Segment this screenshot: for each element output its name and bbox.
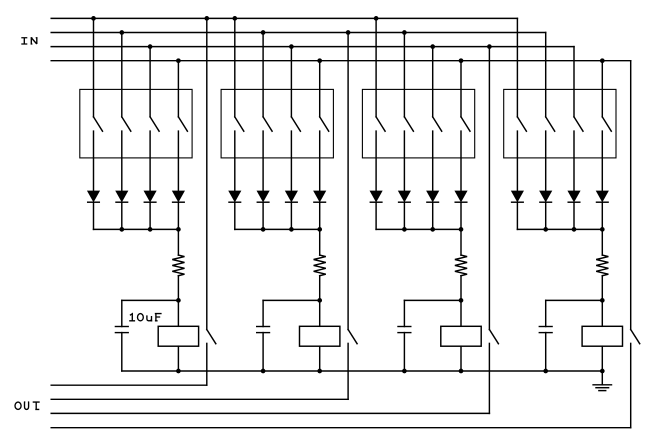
relay coil K3 <box>441 326 481 346</box>
junction dot relay K2 at ground rail <box>317 369 322 374</box>
relay coil K2 <box>300 326 340 346</box>
wire from IN1 down to switch SW3-1 <box>375 18 377 117</box>
wire channel-1 diode common rail <box>94 228 179 230</box>
wire from diode D33 cathode to channel-3 rail <box>432 202 434 229</box>
wire from IN4 down to switch SW3-4 <box>460 61 462 117</box>
wire from switch SW4-1 to diode D41 <box>516 131 518 191</box>
capacitor C2 <box>257 327 270 333</box>
diode D43 <box>568 191 580 202</box>
value label 10uF for capacitor C1 <box>129 314 161 321</box>
capacitor C4 <box>539 327 552 333</box>
switch SW4-2 <box>546 117 555 131</box>
switch SW2-3 <box>291 117 300 131</box>
switch SW2-2 <box>263 117 272 131</box>
wire diode rail to resistor R2 <box>319 229 321 255</box>
wire from IN2 down to switch SW1-2 <box>121 33 123 117</box>
resistor R4 <box>596 255 608 276</box>
wire from switch SW1-4 to diode D14 <box>177 131 179 191</box>
wire relay coil K4 to ground rail <box>601 346 603 371</box>
wire from switch SW4-4 to diode D44 <box>601 131 603 191</box>
diode D32 <box>399 191 411 202</box>
switch SW4-1 <box>517 117 526 131</box>
wire IN1 bus line <box>51 17 517 19</box>
wire relay contact K2 to OUT2 <box>347 343 349 399</box>
wire from diode D14 cathode to channel-1 rail <box>177 202 179 229</box>
diode D44 <box>597 191 609 202</box>
wire from switch SW3-1 to diode D31 <box>375 131 377 191</box>
wire relay coil K1 to ground rail <box>177 346 179 371</box>
net label IN <box>21 38 37 44</box>
wire from IN4 down to switch SW4-4 <box>601 61 603 117</box>
relay contact switch K2 <box>348 330 357 344</box>
wire capacitor C3 to ground rail <box>403 333 405 371</box>
wire from IN2 down to switch SW2-2 <box>262 33 264 117</box>
capacitor C1 <box>115 327 128 333</box>
wire from IN3 down to switch SW2-3 <box>290 47 292 117</box>
diode D21 <box>229 191 241 202</box>
diode D12 <box>116 191 128 202</box>
net label OUT <box>15 402 40 409</box>
junction dots on net IN4 <box>176 58 605 63</box>
DIP switch block SW1 <box>80 89 192 157</box>
wire channel-3 diode common rail <box>376 228 461 230</box>
relay contact switch K3 <box>489 330 498 344</box>
switch SW3-3 <box>433 117 442 131</box>
wire resistor R2 to node 2 <box>319 276 321 301</box>
junction dots on channel-3 diode rail <box>402 227 463 232</box>
wire from IN4 down to switch SW2-4 <box>319 61 321 117</box>
wire from IN3 down to switch SW3-3 <box>432 47 434 117</box>
diode D41 <box>512 191 524 202</box>
wire node 1 to capacitor C1 <box>122 300 179 326</box>
wire node 3 to relay coil K3 <box>460 300 462 326</box>
wire from diode D23 cathode to channel-2 rail <box>290 202 292 229</box>
wire capacitor C4 to ground rail <box>545 333 547 371</box>
wire from diode D21 cathode to channel-2 rail <box>234 202 236 229</box>
wire from diode D11 cathode to channel-1 rail <box>93 202 95 229</box>
wire OUT4 bus line <box>51 427 631 429</box>
wire node 1 to relay coil K1 <box>177 300 179 326</box>
wire from switch SW1-3 to diode D13 <box>149 131 151 191</box>
wire node 2 to capacitor C2 <box>263 300 320 326</box>
resistor R2 <box>314 255 326 276</box>
wire from switch SW4-2 to diode D42 <box>545 131 547 191</box>
wire IN2 to relay contact K2 <box>347 33 349 330</box>
wire from switch SW2-2 to diode D22 <box>262 131 264 191</box>
wire from IN1 down to switch SW1-1 <box>93 18 95 117</box>
diode D22 <box>257 191 269 202</box>
wire from diode D43 cathode to channel-4 rail <box>573 202 575 229</box>
wire relay contact K3 to OUT3 <box>488 343 490 413</box>
junction dot relay K4 at ground rail <box>600 369 605 374</box>
diode D11 <box>88 191 100 202</box>
diode D42 <box>540 191 552 202</box>
diode D13 <box>144 191 156 202</box>
diode D34 <box>455 191 467 202</box>
wire from IN3 down to switch SW1-3 <box>149 47 151 117</box>
junction dots on ground rail (capacitors C2-C4) <box>261 369 548 374</box>
switch SW2-4 <box>320 117 329 131</box>
wire from diode D24 cathode to channel-2 rail <box>319 202 321 229</box>
wire from diode D12 cathode to channel-1 rail <box>121 202 123 229</box>
junction dots on net IN1 <box>91 16 378 21</box>
wire from diode D31 cathode to channel-3 rail <box>375 202 377 229</box>
relay coil K4 <box>582 326 622 346</box>
wire node 2 to relay coil K2 <box>319 300 321 326</box>
wire from diode D22 cathode to channel-2 rail <box>262 202 264 229</box>
wire ground rail <box>122 370 603 372</box>
wire resistor R1 to node 1 <box>177 276 179 301</box>
wire from diode D13 cathode to channel-1 rail <box>149 202 151 229</box>
switch SW3-4 <box>461 117 470 131</box>
wire IN3 to relay contact K3 <box>488 47 490 330</box>
junction dot relay K1 at ground rail <box>176 369 181 374</box>
wire OUT2 bus line <box>51 398 348 400</box>
ground <box>593 371 611 391</box>
diode D23 <box>286 191 298 202</box>
diode D14 <box>173 191 185 202</box>
switch SW4-4 <box>602 117 611 131</box>
wire resistor R4 to node 4 <box>601 276 603 301</box>
switch SW3-1 <box>376 117 385 131</box>
wire from diode D32 cathode to channel-3 rail <box>403 202 405 229</box>
switch SW3-2 <box>404 117 413 131</box>
DIP switch block SW3 <box>362 89 474 157</box>
node 4 junction <box>600 298 605 303</box>
wire IN2 bus line <box>51 32 546 34</box>
wire from diode D42 cathode to channel-4 rail <box>545 202 547 229</box>
switch SW1-3 <box>150 117 159 131</box>
junction dots on net IN2 <box>119 30 406 35</box>
wire from IN1 down to switch SW2-1 <box>234 18 236 117</box>
wire from switch SW2-3 to diode D23 <box>290 131 292 191</box>
diode D31 <box>370 191 382 202</box>
junction dots on net IN3 <box>148 44 492 49</box>
diode D24 <box>314 191 326 202</box>
resistor R3 <box>455 255 467 276</box>
capacitor C3 <box>398 327 411 333</box>
wire diode rail to resistor R1 <box>177 229 179 255</box>
switch SW1-2 <box>122 117 131 131</box>
resistor R1 <box>172 255 184 276</box>
switch SW2-1 <box>235 117 244 131</box>
wire node 4 to relay coil K4 <box>601 300 603 326</box>
wire from IN3 down to switch SW4-3 <box>573 47 575 117</box>
wire from switch SW3-2 to diode D32 <box>403 131 405 191</box>
wire capacitor C1 to ground rail <box>121 333 123 371</box>
wire diode rail to resistor R4 <box>601 229 603 255</box>
wire relay coil K3 to ground rail <box>460 346 462 371</box>
wire from IN2 down to switch SW3-2 <box>403 33 405 117</box>
wire capacitor C2 to ground rail <box>262 333 264 371</box>
DIP switch block SW2 <box>221 89 333 157</box>
wire resistor R3 to node 3 <box>460 276 462 301</box>
junction dots on channel-1 diode rail <box>119 227 180 232</box>
wire from diode D34 cathode to channel-3 rail <box>460 202 462 229</box>
switch SW1-4 <box>178 117 187 131</box>
wire IN4 to relay contact K4 <box>630 61 632 330</box>
wire OUT3 bus line <box>51 412 489 414</box>
node 1 junction <box>176 298 181 303</box>
wire node 3 to capacitor C3 <box>404 300 461 326</box>
wire IN3 bus line <box>51 46 574 48</box>
junction dot relay K3 at ground rail <box>459 369 464 374</box>
wire from switch SW2-1 to diode D21 <box>234 131 236 191</box>
relay coil K1 <box>158 326 198 346</box>
wire from switch SW1-1 to diode D11 <box>93 131 95 191</box>
wire channel-2 diode common rail <box>235 228 320 230</box>
diode D33 <box>427 191 439 202</box>
junction dots on channel-4 diode rail <box>543 227 604 232</box>
relay contact switch K4 <box>631 330 640 344</box>
wire from switch SW3-3 to diode D33 <box>432 131 434 191</box>
wire channel-4 diode common rail <box>517 228 602 230</box>
switch SW1-1 <box>94 117 103 131</box>
wire diode rail to resistor R3 <box>460 229 462 255</box>
wire from IN1 down to switch SW4-1 <box>516 18 518 117</box>
wire from IN4 down to switch SW1-4 <box>177 61 179 117</box>
wire from diode D44 cathode to channel-4 rail <box>601 202 603 229</box>
DIP switch block SW4 <box>504 89 616 157</box>
wire from switch SW4-3 to diode D43 <box>573 131 575 191</box>
wire from switch SW3-4 to diode D34 <box>460 131 462 191</box>
node 3 junction <box>459 298 464 303</box>
wire relay contact K1 to OUT1 <box>206 343 208 385</box>
wire IN4 bus line <box>51 60 631 62</box>
wire relay contact K4 to OUT4 <box>630 343 632 427</box>
switch SW4-3 <box>574 117 583 131</box>
wire OUT1 bus line <box>51 384 207 386</box>
wire from diode D41 cathode to channel-4 rail <box>516 202 518 229</box>
relay contact switch K1 <box>207 330 216 344</box>
wire from switch SW2-4 to diode D24 <box>319 131 321 191</box>
node 2 junction <box>317 298 322 303</box>
wire node 4 to capacitor C4 <box>546 300 603 326</box>
wire relay coil K2 to ground rail <box>319 346 321 371</box>
wire from switch SW1-2 to diode D12 <box>121 131 123 191</box>
wire IN1 to relay contact K1 <box>206 18 208 329</box>
junction dots on channel-2 diode rail <box>261 227 322 232</box>
wire from IN2 down to switch SW4-2 <box>545 33 547 117</box>
